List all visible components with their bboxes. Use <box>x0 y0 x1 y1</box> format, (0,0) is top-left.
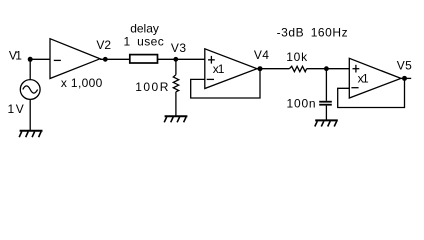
svg-text:V2: V2 <box>96 38 111 52</box>
delay block box <box>130 55 158 63</box>
svg-text:100R: 100R <box>135 80 170 94</box>
ground (below 100n) <box>315 120 338 126</box>
capacitor 100n plates <box>319 102 332 105</box>
wire V1 to amplifier input <box>30 58 50 60</box>
svg-text:V1: V1 <box>9 49 22 63</box>
wire delay to op-amp U1 <box>158 58 205 60</box>
svg-text:V5: V5 <box>397 59 413 73</box>
wire resistor to ground <box>175 92 177 116</box>
wire V3 down to resistor <box>175 59 177 74</box>
resistor 100R zigzag <box>173 75 178 92</box>
wire capacitor to ground <box>325 106 327 120</box>
node V5 junction dot <box>402 76 407 81</box>
op-amp U1 feedback wire <box>191 69 260 98</box>
svg-text:x 1,000: x 1,000 <box>61 76 103 90</box>
node V2 junction dot <box>103 57 108 62</box>
svg-text:x1: x1 <box>358 71 369 85</box>
wire op-amp U1 output to 10k <box>257 68 289 70</box>
op-amp U2 feedback wire <box>338 78 405 107</box>
ground (below source) <box>19 131 42 138</box>
svg-text:100n: 100n <box>287 97 317 111</box>
op-amp U1 plus input symbol <box>208 56 215 64</box>
svg-text:delay: delay <box>130 21 159 35</box>
wire V1 down to source <box>29 59 31 79</box>
resistor 10k zigzag <box>289 66 306 71</box>
svg-text:1 usec: 1 usec <box>124 34 165 48</box>
wire 10k to op-amp U2 <box>307 68 350 70</box>
svg-text:V4: V4 <box>254 48 269 62</box>
svg-text:1V: 1V <box>7 102 25 116</box>
op-amp U1 triangle <box>205 49 257 89</box>
wire node down to capacitor <box>325 69 327 101</box>
svg-text:x1: x1 <box>213 62 225 76</box>
ground (below 100R) <box>164 116 187 122</box>
node V3 junction dot <box>173 57 178 62</box>
wire source to ground <box>29 99 31 130</box>
svg-text:10k: 10k <box>286 50 308 64</box>
voltage source sine symbol <box>23 86 38 93</box>
op-amp U2 plus input symbol <box>353 65 360 73</box>
svg-text:-3dB 160Hz: -3dB 160Hz <box>277 26 349 40</box>
voltage source V1 circle <box>20 80 40 100</box>
op-amp U2 minus input symbol <box>351 87 358 89</box>
wire amplifier output to delay <box>100 58 130 60</box>
node V4 junction dot <box>258 66 263 71</box>
svg-text:V3: V3 <box>171 41 187 55</box>
filter node junction dot <box>324 66 329 71</box>
amplifier A1 inverting dash <box>54 59 61 61</box>
wire op-amp U2 output stub <box>401 77 411 79</box>
amplifier A1 triangle <box>50 39 100 79</box>
node V1 junction dot <box>28 57 33 62</box>
op-amp U1 minus input symbol <box>207 78 214 80</box>
op-amp U2 triangle <box>349 58 401 98</box>
